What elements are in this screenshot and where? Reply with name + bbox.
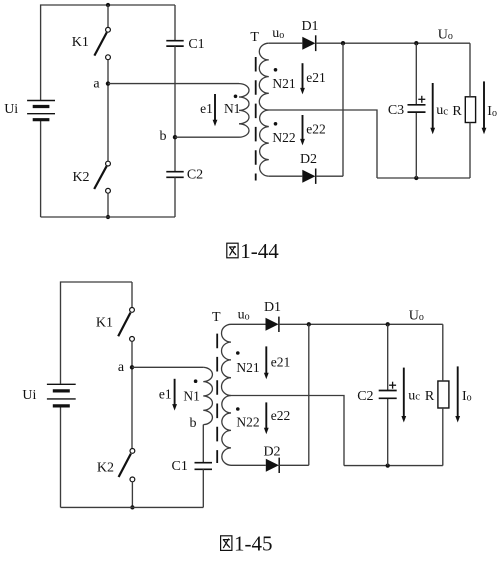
svg-text:T: T — [250, 30, 259, 45]
wire secondary top rail (bottom circuit) — [231, 323, 266, 325]
wire D2 vertical rail — [342, 43, 344, 176]
svg-text:K2: K2 — [97, 460, 114, 475]
wire switch branch middle (bottom circuit) — [131, 341, 133, 448]
svg-text:a: a — [118, 360, 125, 375]
transformer core (top circuit) — [255, 57, 257, 181]
battery Ui (bottom circuit) — [47, 384, 76, 406]
wire node a to primary — [108, 83, 239, 85]
svg-text:e21: e21 — [271, 354, 291, 369]
svg-text:a: a — [93, 76, 100, 91]
svg-text:D1: D1 — [301, 19, 318, 34]
wire output bottom rail (bottom circuit) — [344, 465, 443, 467]
wire right rail upper (bottom circuit) — [442, 324, 444, 381]
svg-text:Ui: Ui — [22, 388, 36, 403]
polarity dot N21 (bottom circuit) — [236, 351, 240, 355]
wire switch branch top — [107, 5, 109, 27]
wire C2 branch lower — [387, 398, 389, 465]
wire C3 branch lower — [415, 112, 417, 178]
arrow uc (bottom circuit) — [401, 368, 406, 423]
capacitor C3 (top circuit) — [408, 105, 426, 112]
capacitor C1 (top circuit) — [166, 41, 183, 46]
svg-text:e21: e21 — [306, 70, 326, 85]
arrow uc (top circuit) — [430, 83, 435, 134]
svg-text:D2: D2 — [263, 445, 280, 460]
switch K2 (top circuit) — [94, 161, 110, 193]
wire primary to C1 (bottom circuit) — [202, 425, 204, 463]
svg-text:e22: e22 — [271, 408, 291, 423]
junction dot C2 top (bottom circuit) — [386, 322, 390, 326]
wire output top rail (bottom circuit) — [279, 323, 443, 325]
wire C2 branch upper — [387, 324, 389, 390]
arrow e21 (bottom circuit) — [264, 346, 269, 379]
svg-text:1-45: 1-45 — [234, 532, 273, 556]
capacitor C2 (top circuit) — [166, 172, 183, 178]
diode D1 (top circuit) — [302, 35, 315, 51]
wire node a to primary (bottom circuit) — [132, 366, 203, 368]
svg-text:R: R — [425, 389, 435, 404]
node b (top circuit) — [173, 135, 177, 139]
svg-text:C2: C2 — [187, 168, 203, 183]
svg-text:e1: e1 — [159, 387, 172, 402]
arrow e22 (bottom circuit) — [264, 402, 269, 434]
diode D2 (bottom circuit) — [266, 458, 279, 473]
switch K2 (bottom circuit) — [119, 449, 135, 482]
svg-text:K1: K1 — [72, 35, 89, 50]
junction dot C3 bottom — [414, 176, 418, 180]
resistor R (bottom circuit) — [438, 381, 449, 408]
junction dot bottom rail (bottom circuit) — [130, 505, 134, 509]
node a (bottom circuit) — [130, 365, 134, 369]
polarity dot N21 (top circuit) — [274, 68, 278, 72]
diode D2 (top circuit) — [302, 169, 315, 184]
svg-text:1-44: 1-44 — [240, 239, 279, 263]
svg-text:uc: uc — [408, 388, 420, 403]
svg-text:uc: uc — [436, 103, 448, 118]
polarity dot N22 (top circuit) — [274, 122, 278, 126]
transformer secondary N22 (bottom circuit) — [222, 396, 231, 466]
wire D2 vertical rail (bottom circuit) — [308, 324, 310, 465]
arrow Io (bottom circuit) — [455, 366, 460, 422]
junction dot C3 top — [414, 41, 418, 45]
wire right rail lower — [469, 123, 471, 179]
switch K1 (top circuit) — [94, 27, 110, 59]
polarity dot N1 (top circuit) — [234, 95, 238, 99]
arrow e1 (top circuit) — [213, 94, 218, 126]
svg-text:N1: N1 — [183, 388, 200, 403]
svg-text:Ui: Ui — [4, 102, 18, 117]
wire secondary bottom rail (bottom circuit) — [231, 464, 266, 466]
junction dot top rail — [106, 3, 110, 7]
svg-text:K1: K1 — [96, 316, 113, 331]
arrow e1 (bottom circuit) — [172, 379, 177, 411]
svg-text:T: T — [212, 310, 221, 325]
wire switch branch bottom (bottom circuit) — [131, 482, 133, 508]
arrow e22 (top circuit) — [300, 115, 305, 145]
wire center tap (top circuit) — [269, 110, 377, 178]
wire capacitor branch middle — [174, 46, 176, 171]
svg-text:N1: N1 — [224, 101, 241, 116]
wire top-left rail circuit 1 — [41, 5, 175, 100]
wire C3 branch upper — [415, 43, 417, 104]
wire secondary top rail — [269, 42, 303, 44]
wire output top rail — [316, 42, 470, 44]
svg-text:uo: uo — [238, 308, 250, 323]
wire secondary bottom rail — [269, 175, 303, 177]
svg-text:e1: e1 — [200, 101, 213, 116]
wire center tap (bottom circuit) — [231, 396, 344, 466]
diode D1 (bottom circuit) — [266, 317, 279, 332]
svg-text:Uo: Uo — [409, 308, 424, 323]
junction dot bottom rail — [106, 215, 110, 219]
plus sign C3 — [418, 96, 425, 103]
transformer primary N1 (bottom circuit) — [203, 367, 212, 424]
svg-text:N21: N21 — [236, 360, 259, 375]
svg-text:N22: N22 — [236, 415, 259, 430]
wire C1 to bottom rail — [202, 469, 204, 507]
wire node b to primary — [175, 136, 239, 138]
wire right rail lower (bottom circuit) — [442, 408, 444, 466]
capacitor C2 (bottom circuit) — [379, 391, 397, 399]
wire capacitor branch top — [174, 5, 176, 40]
svg-text:b: b — [190, 416, 197, 431]
transformer secondary N21 (top circuit) — [259, 43, 269, 110]
wire switch branch bottom — [107, 193, 109, 217]
plus sign C2 (bottom circuit) — [389, 382, 396, 389]
svg-text:uo: uo — [272, 26, 284, 41]
wire bottom rail circuit 1 — [41, 216, 175, 218]
svg-text:Io: Io — [487, 104, 497, 119]
transformer core (bottom circuit) — [216, 334, 218, 463]
capacitor C1 (bottom circuit) — [195, 463, 213, 470]
svg-text:D2: D2 — [300, 152, 317, 167]
node a (top circuit) — [106, 81, 110, 85]
transformer primary N1 (top circuit) — [239, 84, 249, 138]
arrow e21 (top circuit) — [300, 63, 305, 94]
wire left rail lower circuit 2 — [60, 407, 62, 508]
svg-text:Uo: Uo — [438, 27, 453, 42]
junction dot C2 bottom (bottom circuit) — [386, 463, 390, 467]
switch K1 (bottom circuit) — [118, 308, 134, 342]
svg-text:Io: Io — [462, 389, 472, 404]
caption figure 1-45 — [221, 532, 273, 556]
svg-text:b: b — [160, 129, 167, 144]
wire top-left rail circuit 2 — [61, 282, 133, 384]
caption figure 1-44 — [227, 239, 279, 263]
wire capacitor branch bottom — [174, 177, 176, 217]
transformer secondary N22 (top circuit) — [260, 110, 269, 176]
polarity dot N1 (bottom circuit) — [194, 379, 198, 383]
svg-text:N21: N21 — [272, 76, 295, 91]
svg-text:N22: N22 — [272, 130, 295, 145]
wire output bottom rail — [377, 177, 470, 179]
wire left rail lower circuit 1 — [40, 121, 42, 218]
svg-text:C2: C2 — [357, 389, 373, 404]
svg-text:R: R — [452, 104, 462, 119]
wire switch branch middle — [107, 60, 109, 162]
junction dot D2 rail top (bottom circuit) — [307, 322, 311, 326]
wire D2 to vertical rail (bottom circuit) — [279, 464, 309, 466]
wire right rail upper — [469, 43, 471, 97]
resistor R (top circuit) — [465, 97, 475, 123]
wire switch branch top (bottom circuit) — [131, 282, 133, 308]
battery Ui (top circuit) — [27, 101, 55, 120]
svg-text:C1: C1 — [188, 37, 204, 52]
arrow Io (top circuit) — [482, 81, 487, 134]
svg-text:D1: D1 — [264, 300, 281, 315]
svg-text:C1: C1 — [172, 459, 188, 474]
svg-text:C3: C3 — [388, 103, 404, 118]
wire bottom rail circuit 2 — [61, 506, 204, 508]
svg-text:e22: e22 — [306, 122, 326, 137]
svg-text:K2: K2 — [72, 170, 89, 185]
polarity dot N22 (bottom circuit) — [236, 407, 240, 411]
wire D2 to vertical rail — [316, 175, 343, 177]
transformer secondary N21 (bottom circuit) — [222, 324, 232, 395]
junction dot D2 rail top — [341, 41, 345, 45]
